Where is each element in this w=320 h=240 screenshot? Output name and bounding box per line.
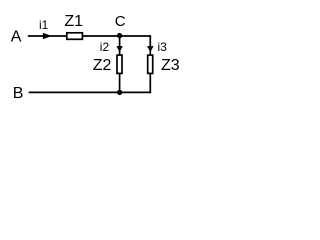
svg-text:C: C — [115, 13, 126, 30]
wire — [149, 35, 151, 55]
current arrow i1 — [39, 18, 52, 40]
svg-text:i1: i1 — [39, 18, 49, 32]
impedance Z1 — [64, 13, 83, 39]
junction dot — [117, 90, 122, 95]
node A — [11, 29, 22, 46]
impedance Z2 — [93, 55, 122, 74]
current arrow i2 — [100, 40, 123, 54]
impedance Z3 — [148, 55, 180, 74]
wire — [83, 35, 151, 37]
wire — [29, 91, 151, 93]
wire — [149, 74, 151, 94]
svg-text:Z3: Z3 — [161, 57, 180, 74]
svg-text:B: B — [13, 85, 24, 102]
current arrow i3 — [147, 40, 167, 54]
svg-text:Z1: Z1 — [64, 13, 83, 30]
wire — [28, 35, 66, 37]
svg-text:i2: i2 — [100, 40, 110, 54]
svg-text:A: A — [11, 29, 22, 46]
wire — [119, 36, 121, 55]
node B — [13, 85, 24, 102]
wire — [119, 74, 121, 93]
node C — [115, 13, 126, 38]
svg-text:Z2: Z2 — [93, 57, 112, 74]
svg-text:i3: i3 — [158, 40, 168, 54]
